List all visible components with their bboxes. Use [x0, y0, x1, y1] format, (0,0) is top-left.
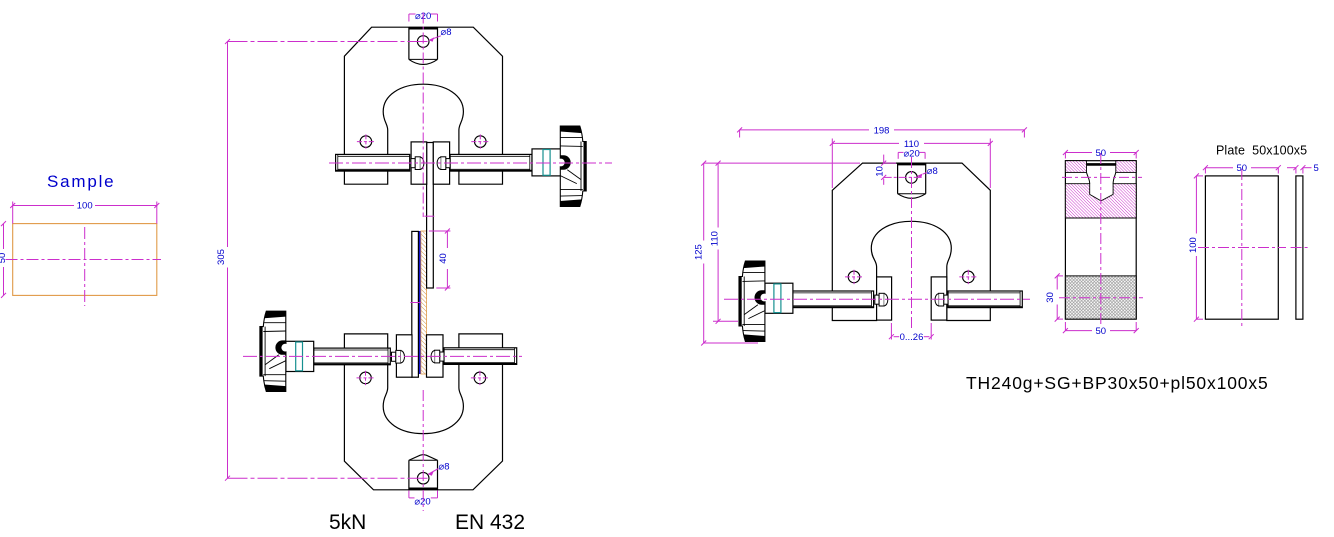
sample plate blue edge line — [418, 231, 421, 374]
svg-text:100: 100 — [1188, 237, 1199, 253]
block slot side transitions — [1087, 172, 1090, 183]
svg-text:50: 50 — [1096, 148, 1107, 159]
dim 305 top extension — [228, 41, 430, 43]
right clamp plate left — [877, 277, 892, 320]
svg-text:⌀8: ⌀8 — [439, 461, 450, 472]
upper left screw tip — [411, 157, 424, 170]
svg-text:⌀8: ⌀8 — [441, 27, 452, 38]
right right screw rod — [948, 291, 1022, 308]
dim 30 block — [1045, 273, 1063, 321]
dim 110 left vertical — [710, 161, 738, 324]
dim 5 plate — [1287, 163, 1319, 174]
dim 100 plate — [1188, 173, 1203, 321]
block head mid horizontal centerline — [1062, 176, 1142, 178]
lower clamp plate right — [427, 335, 444, 377]
right hole left with crosshair — [845, 270, 863, 284]
lower grip vertical centerline — [422, 390, 424, 511]
svg-text:30: 30 — [1045, 292, 1056, 303]
sample rectangle — [13, 224, 157, 296]
right left screw tip — [875, 293, 888, 306]
lower left screw rod — [314, 348, 391, 365]
lower grip body outline — [344, 334, 502, 490]
plate vertical centerline — [1241, 169, 1243, 327]
dim 110 top — [830, 139, 993, 189]
sample centerline vertical — [84, 227, 86, 306]
upper knob — [557, 126, 586, 206]
lower tab hole — [417, 472, 429, 484]
dim 198 — [737, 125, 1027, 137]
lower hub retaining ring teal — [296, 342, 303, 371]
dim phi20 top — [409, 11, 438, 22]
dim 50 sample — [0, 221, 8, 298]
svg-text:EN 432: EN 432 — [455, 511, 525, 534]
right left screw rod — [793, 291, 874, 308]
upper right screw rod — [450, 154, 532, 171]
dim 125 — [694, 161, 861, 346]
right tab hole — [906, 172, 918, 184]
right view vertical centerline — [911, 157, 913, 330]
svg-text:50: 50 — [0, 253, 8, 264]
svg-text:100: 100 — [77, 201, 93, 212]
upper left screw rod — [336, 154, 410, 171]
upper grip body outline — [344, 27, 502, 184]
block horizontal centerline — [1059, 297, 1143, 299]
block hatched head zone upper band — [1065, 161, 1086, 173]
lower left screw tip — [392, 350, 405, 363]
dim phi8 top leader — [429, 27, 452, 42]
dim phi8 bottom leader — [428, 461, 450, 476]
svg-text:50: 50 — [1237, 163, 1248, 174]
right right screw tip — [935, 293, 948, 306]
lower hole right with crosshair — [471, 371, 489, 385]
right knob — [739, 261, 768, 341]
lower screw axis centerline — [243, 355, 522, 357]
right hub — [765, 283, 793, 313]
dim 50 block top — [1063, 148, 1139, 159]
plate side view — [1296, 176, 1303, 319]
right clamp plate right — [931, 277, 947, 320]
svg-text:40: 40 — [438, 253, 449, 264]
sample centerline horizontal — [6, 259, 162, 261]
svg-text:0...26: 0...26 — [900, 332, 924, 343]
svg-text:⌀20: ⌀20 — [414, 496, 430, 507]
lower clamp plate left — [396, 335, 412, 377]
dim 0...26 — [889, 323, 934, 343]
svg-text:TH240g+SG+BP30x50+pl50x100x5: TH240g+SG+BP30x50+pl50x100x5 — [966, 373, 1269, 393]
right tab hole crosshair — [884, 176, 923, 178]
block outline — [1065, 161, 1136, 319]
dim 40 bond length — [429, 229, 451, 291]
dim 305 bottom extension — [228, 477, 430, 479]
svg-text:305: 305 — [216, 249, 227, 265]
sample adhesive orange hatch — [421, 231, 427, 374]
lower hub — [286, 341, 314, 371]
mid mark lower strip — [410, 302, 421, 304]
svg-text:Sample: Sample — [47, 172, 115, 191]
upper hole left with crosshair — [357, 134, 375, 148]
lower tab pocket — [409, 455, 438, 490]
upper hub — [532, 149, 565, 176]
dim phi8 right view leader — [917, 166, 938, 178]
svg-text:5kN: 5kN — [329, 511, 366, 534]
upper clamp plate right — [433, 142, 449, 184]
block hatched head zone lower band — [1065, 184, 1136, 218]
svg-text:5: 5 — [1314, 163, 1319, 174]
plate side centerline — [1291, 247, 1309, 249]
upper tab hole — [417, 36, 429, 48]
svg-text:10: 10 — [875, 166, 886, 177]
lower pull strip — [412, 231, 419, 377]
lower right screw rod — [444, 348, 517, 365]
dim 305 vertical line — [216, 39, 230, 481]
block vertical centerline — [1100, 153, 1102, 327]
dim phi20 right view — [898, 148, 925, 159]
upper screw axis centerline — [329, 162, 612, 164]
right screw axis centerline — [724, 298, 1030, 300]
upper right screw tip — [437, 157, 450, 170]
dim 50 plate — [1203, 163, 1281, 174]
upper grip vertical centerline — [422, 13, 424, 218]
svg-text:Plate 50x100x5: Plate 50x100x5 — [1216, 144, 1307, 158]
upper hub retaining ring teal — [543, 150, 550, 176]
svg-text:198: 198 — [874, 125, 890, 136]
lower knob — [260, 311, 289, 391]
block gray base zone — [1065, 276, 1136, 319]
plate front rectangle — [1205, 176, 1278, 319]
svg-text:50: 50 — [1096, 326, 1107, 337]
mid mark upper strip — [424, 215, 434, 217]
svg-text:⌀8: ⌀8 — [927, 166, 938, 177]
lower right screw tip — [431, 350, 444, 363]
upper hole right with crosshair — [471, 134, 489, 148]
dim 50 block bottom — [1063, 322, 1139, 337]
dim 100 sample — [10, 201, 159, 224]
svg-text:110: 110 — [710, 231, 721, 246]
right grip body outline — [832, 163, 990, 320]
plate horizontal centerline — [1198, 247, 1286, 249]
dim 10 right view — [875, 155, 896, 185]
svg-text:125: 125 — [694, 244, 705, 260]
lower hole left with crosshair — [357, 371, 375, 385]
right hole right with crosshair — [959, 270, 977, 284]
block slot bold top edge — [1087, 163, 1116, 166]
right tab pocket — [898, 163, 926, 198]
upper tab pocket — [409, 27, 438, 64]
upper clamp plate left — [411, 142, 427, 184]
upper pull strip — [427, 143, 434, 289]
dim phi20 bottom — [409, 491, 438, 508]
right hub retaining ring teal — [774, 284, 781, 313]
